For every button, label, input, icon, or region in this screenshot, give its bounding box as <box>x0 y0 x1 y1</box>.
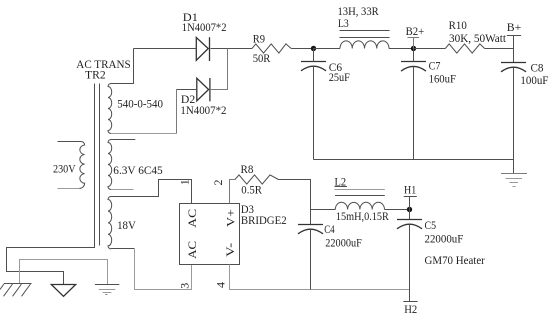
capacitor C6 <box>301 62 326 71</box>
wire 540 bottom terminal to D2 <box>111 90 177 134</box>
svg-text:V+: V+ <box>224 209 238 227</box>
wire R8 to C4 <box>278 180 310 225</box>
svg-text:L2: L2 <box>335 175 347 189</box>
port B2+ <box>406 24 425 49</box>
winding 230V primary <box>79 142 84 189</box>
svg-text:540-0-540: 540-0-540 <box>117 97 163 111</box>
wire bridge pin 4 to bottom rail <box>230 265 410 290</box>
svg-text:230V: 230V <box>53 161 76 175</box>
svg-text:R8: R8 <box>241 162 254 176</box>
label C8 <box>520 61 548 88</box>
wire 6.3V bottom stub <box>111 189 134 191</box>
resistor R8 <box>235 175 278 184</box>
svg-text:AC: AC <box>185 209 199 228</box>
wire C7 top <box>413 49 415 62</box>
wire B2+ to R10 <box>414 48 446 50</box>
label D2 <box>180 92 226 117</box>
svg-text:1N4007*2: 1N4007*2 <box>182 20 227 34</box>
wire H1 to C5 <box>409 210 411 220</box>
wire C5 bottom to H2 <box>409 225 411 302</box>
svg-text:GM70 Heater: GM70 Heater <box>425 253 485 267</box>
svg-text:100uF: 100uF <box>520 73 548 87</box>
svg-text:160uF: 160uF <box>429 71 457 85</box>
svg-text:B2+: B2+ <box>406 24 425 38</box>
svg-text:18V: 18V <box>117 218 136 232</box>
label L3 <box>338 4 379 30</box>
ground (triangle) <box>51 285 75 297</box>
capacitor C4 <box>298 225 323 234</box>
label L2 <box>335 175 389 223</box>
inductor L2 <box>335 187 385 210</box>
wire C7 bottom <box>413 67 415 160</box>
svg-text:B+: B+ <box>507 20 522 34</box>
wire C4 node to L2 <box>311 209 336 211</box>
wire D2 cathode up to rail <box>211 49 228 90</box>
wire L2 to H1 node <box>385 209 410 211</box>
svg-text:V-: V- <box>223 243 237 257</box>
svg-text:H1: H1 <box>404 183 416 197</box>
svg-text:TR2: TR2 <box>85 68 106 82</box>
wire bottom rail of cap bank <box>314 159 514 161</box>
capacitor C7 <box>401 62 426 72</box>
wire B+ stub to C8 <box>513 36 515 63</box>
wire L3 to B2+ node <box>389 48 414 50</box>
svg-text:50R: 50R <box>253 51 271 65</box>
svg-text:15mH,0.15R: 15mH,0.15R <box>336 209 389 223</box>
svg-text:1N4007*2: 1N4007*2 <box>180 103 226 117</box>
wire 18V bottom terminal <box>111 248 135 250</box>
wire C6 bottom <box>313 67 315 160</box>
svg-text:22000uF: 22000uF <box>425 231 464 245</box>
label R9 <box>253 32 271 65</box>
node B2+ junction <box>411 46 416 51</box>
svg-text:H2: H2 <box>404 302 417 316</box>
winding 540-0-540 (HV secondary) <box>108 84 112 134</box>
wire rail C6 to L3 <box>314 48 341 50</box>
label C5 <box>425 218 464 245</box>
bridge rectifier D3 <box>180 204 240 265</box>
svg-text:L3: L3 <box>338 16 349 30</box>
svg-text:C7: C7 <box>429 58 441 72</box>
wire core ground path <box>7 246 95 285</box>
capacitor C8 <box>501 63 526 72</box>
wire 230V top stub <box>58 141 82 143</box>
wire R9 to C6 node <box>291 48 313 50</box>
svg-text:6.3V 6C45: 6.3V 6C45 <box>113 163 162 177</box>
transformer TR2 core <box>95 84 100 246</box>
diode D1 <box>196 37 209 61</box>
svg-text:25uF: 25uF <box>329 70 350 84</box>
wire 18V bottom to bridge pin 3 <box>135 249 192 290</box>
winding 18V <box>108 197 112 249</box>
svg-text:3: 3 <box>178 283 192 289</box>
resistor R9 <box>252 44 291 53</box>
wire C6 top <box>313 49 315 62</box>
svg-text:C4: C4 <box>324 222 335 236</box>
ground (earth, below C8) <box>501 174 527 187</box>
winding 6.3V 6C45 <box>108 140 112 190</box>
transformer TR2 label <box>76 57 130 82</box>
wire 6.3V top stub <box>111 139 135 141</box>
svg-text:0.5R: 0.5R <box>241 183 262 197</box>
wire D1 cathode to R9 <box>211 48 253 50</box>
label C6 <box>329 60 350 84</box>
wire D2 anode <box>177 89 197 91</box>
node H1 junction <box>407 207 412 212</box>
wire C8 bottom to ground <box>513 68 515 174</box>
capacitor C5 <box>397 220 422 229</box>
port H1 <box>404 183 417 210</box>
port B+ <box>507 20 522 35</box>
wire R10 to B+ <box>485 48 514 50</box>
label C4 <box>324 222 362 249</box>
node C6 junction <box>311 46 316 51</box>
svg-text:C5: C5 <box>425 218 437 232</box>
port H2 <box>403 302 417 316</box>
wire 230V bottom stub <box>58 188 80 190</box>
inductor L3 <box>340 31 390 49</box>
wire 540 top terminal to D1 <box>111 49 134 84</box>
resistor R10 <box>445 44 484 53</box>
wire gray ground net <box>20 260 108 285</box>
ground (earth, bottom left) <box>95 285 119 295</box>
label D3 <box>241 202 287 227</box>
ground (chassis, hatched) <box>0 284 32 297</box>
wire C4 bottom <box>310 230 312 290</box>
label D1 <box>182 10 227 34</box>
svg-text:4: 4 <box>213 282 227 288</box>
wire bridge pin 2 to R8 <box>230 180 236 204</box>
diode D2 <box>197 78 210 101</box>
svg-text:22000uF: 22000uF <box>325 235 362 249</box>
svg-text:R9: R9 <box>253 32 265 46</box>
svg-text:AC: AC <box>185 241 199 259</box>
label C7 <box>429 58 457 85</box>
svg-text:1: 1 <box>177 179 191 185</box>
svg-text:2: 2 <box>211 180 225 186</box>
wire D1 anode <box>134 48 197 50</box>
label R10 <box>449 18 507 45</box>
wire 18V top terminal to bridge pin 1 <box>111 180 192 204</box>
svg-text:BRIDGE2: BRIDGE2 <box>241 213 287 227</box>
label R8 <box>241 162 263 197</box>
svg-text:30K, 50Watt: 30K, 50Watt <box>449 31 507 45</box>
